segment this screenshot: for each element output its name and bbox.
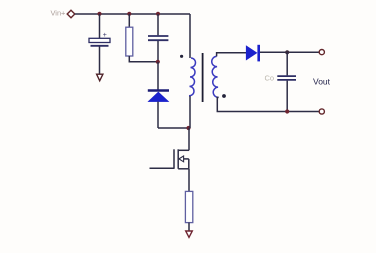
wire MOSFET gate lead <box>150 167 175 169</box>
wire MOSFET drain lead <box>188 128 190 150</box>
wire transformer primary top lead <box>189 14 191 58</box>
junction snubber-resistor node <box>127 12 131 16</box>
wire transformer primary bottom lead <box>189 96 191 128</box>
wire snubber node to diode D1 <box>157 62 159 90</box>
wire top rail <box>75 13 190 15</box>
transformer T1 primary winding <box>189 58 195 96</box>
svg-text:Vin+: Vin+ <box>51 9 66 18</box>
resistor R2 (source sense) <box>185 191 192 222</box>
terminal Vin+ (diamond) <box>67 10 75 18</box>
junction output cap top node <box>285 50 289 54</box>
wire output cap top lead <box>286 52 288 75</box>
junction drain node <box>186 126 190 130</box>
wire capacitor C2 bottom lead <box>157 41 159 62</box>
svg-text:Co: Co <box>265 74 275 83</box>
wire input cap top lead <box>99 14 101 38</box>
wire resistor R1 top lead <box>128 14 130 27</box>
wire D2 cathode to output <box>260 51 319 53</box>
wire input cap bottom lead <box>99 47 101 75</box>
ground (input cap) <box>97 74 103 81</box>
diode D1 (clamp, cathode up) <box>148 91 169 102</box>
transformer T1 secondary winding <box>212 56 219 97</box>
transformer T1 core <box>202 53 204 102</box>
junction snubber-cap node <box>156 12 160 16</box>
wire output cap bottom lead <box>286 81 288 112</box>
wire capacitor C2 top lead <box>157 14 159 35</box>
resistor R1 (snubber) <box>126 27 133 56</box>
terminal Vout- (circle) <box>319 109 324 114</box>
transistor Q1 (N-MOSFET) <box>174 149 189 169</box>
polarity dot primary <box>180 55 183 58</box>
wire bottom-left rail to drain node <box>158 127 190 129</box>
wire diode D1 anode lead <box>157 102 159 128</box>
junction output cap bottom node <box>285 109 289 113</box>
svg-text:Vout: Vout <box>313 77 331 87</box>
diode D2 (output rectifier) <box>246 45 260 62</box>
wire resistor R1 bottom lead <box>129 56 158 62</box>
wire secondary bottom lead <box>217 97 319 111</box>
capacitor Co (output) <box>277 76 296 80</box>
wire secondary top lead <box>217 53 247 57</box>
polarity dot secondary <box>222 94 226 98</box>
wire MOSFET source lead <box>188 169 190 192</box>
capacitor C2 (snubber) <box>148 36 168 40</box>
wire R2 bottom lead <box>188 223 190 231</box>
junction snubber bottom node <box>156 60 160 64</box>
terminal Vout+ (circle) <box>319 50 324 55</box>
capacitor C1 (input electrolytic, + mark) <box>89 32 110 46</box>
ground (source resistor) <box>186 231 193 237</box>
junction input-cap node <box>97 12 101 16</box>
